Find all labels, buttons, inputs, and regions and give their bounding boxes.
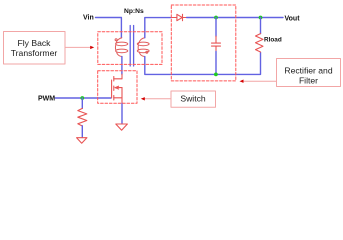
callout arrow to transformer — [65, 46, 90, 48]
svg-text:Np:Ns: Np:Ns — [124, 8, 144, 15]
junction node bottom — [214, 73, 218, 77]
callout box Switch — [171, 91, 216, 107]
svg-text:Filter: Filter — [299, 76, 318, 86]
svg-text:Switch: Switch — [180, 94, 206, 104]
wire PWM to gate — [55, 97, 111, 99]
svg-text:PWM: PWM — [38, 96, 55, 103]
dashed box switch — [98, 71, 137, 104]
callout box Rectifier and Filter — [277, 59, 341, 87]
diode D1 — [171, 14, 186, 20]
junction node out2 — [259, 16, 263, 20]
wire transformer to drain — [121, 57, 123, 75]
svg-text:Vin: Vin — [83, 15, 94, 22]
junction node PWM — [80, 96, 84, 100]
resistor R1 — [81, 98, 83, 108]
callout arrow to rectifier — [243, 80, 277, 82]
svg-text:Vout: Vout — [285, 16, 301, 23]
svg-text:Rload: Rload — [264, 37, 282, 44]
callout arrow to switch — [144, 98, 172, 100]
dashed box transformer — [98, 32, 162, 65]
wire diode to Vout — [187, 17, 283, 19]
resistor Rload — [260, 18, 262, 34]
svg-text:Transformer: Transformer — [11, 48, 58, 58]
wire Vin to transformer primary — [96, 18, 122, 38]
ground under R1 — [77, 138, 87, 144]
transformer T1 secondary winding — [137, 38, 149, 57]
svg-text:Fly Back: Fly Back — [18, 38, 52, 48]
bottom rail wire — [145, 52, 261, 74]
svg-text:Rectifier and: Rectifier and — [284, 66, 332, 76]
junction node out1 — [214, 16, 218, 20]
wire secondary top to diode — [145, 18, 172, 38]
ground under Q1 — [116, 124, 128, 130]
wire source to ground — [121, 103, 123, 123]
transformer T1 primary winding — [115, 38, 128, 57]
callout box Fly Back Transformer — [4, 32, 66, 65]
mosfet Q1 — [112, 74, 122, 103]
transformer core — [130, 26, 133, 67]
dashed box rectifier — [171, 5, 236, 81]
capacitor C1 — [215, 18, 217, 37]
